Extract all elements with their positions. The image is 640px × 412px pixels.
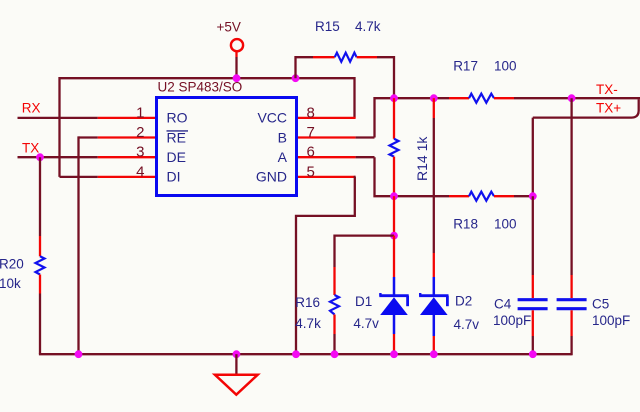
svg-text:1: 1 xyxy=(136,104,144,121)
resistor R15 xyxy=(335,53,357,62)
svg-text:U2 SP483/SO: U2 SP483/SO xyxy=(158,80,243,95)
svg-text:3: 3 xyxy=(136,144,144,161)
svg-text:R14 1k: R14 1k xyxy=(414,136,430,181)
node junction +5V stem xyxy=(233,74,241,82)
svg-text:100pF: 100pF xyxy=(493,313,531,328)
node junction bus RE xyxy=(75,350,83,358)
wire DI from +5V xyxy=(60,176,98,178)
svg-text:B: B xyxy=(278,129,287,145)
wire TX net xyxy=(18,156,98,158)
svg-text:R16: R16 xyxy=(295,295,320,310)
svg-text:8: 8 xyxy=(307,104,315,121)
svg-text:100: 100 xyxy=(494,58,517,73)
svg-text:R17: R17 xyxy=(453,58,478,73)
svg-text:VCC: VCC xyxy=(257,110,287,126)
node junction R15 left xyxy=(292,74,300,82)
svg-text:4.7k: 4.7k xyxy=(355,19,381,34)
svg-text:5: 5 xyxy=(307,163,315,180)
wire R16 bottom xyxy=(333,315,335,335)
svg-text:4: 4 xyxy=(136,163,144,180)
node junction TX-/C5 xyxy=(568,94,576,102)
svg-text:TX: TX xyxy=(22,140,39,155)
IC U2 pin 3 stub xyxy=(98,156,157,158)
capacitor C5 xyxy=(570,98,572,275)
svg-text:A: A xyxy=(278,149,288,165)
svg-text:GND: GND xyxy=(256,169,287,185)
node junction R16 bus xyxy=(331,350,339,358)
node junction TX / R20 xyxy=(36,153,44,161)
resistor R18 xyxy=(449,195,469,197)
svg-text:RX: RX xyxy=(22,101,41,116)
IC U2 pin 6 stub xyxy=(297,156,356,158)
resistor R16 xyxy=(330,295,339,315)
ground symbol xyxy=(235,354,237,374)
wire RX net xyxy=(18,117,98,119)
wire R15 right riser xyxy=(357,56,377,58)
wire R20 bottom xyxy=(39,275,41,294)
wire ground bus xyxy=(39,353,572,355)
wire R16 branch xyxy=(335,236,395,267)
svg-text:TX+: TX+ xyxy=(596,101,621,116)
svg-text:10k: 10k xyxy=(0,276,21,291)
wire A rail xyxy=(356,156,375,158)
wire +5V rail horizontal xyxy=(60,78,355,177)
wire R20 top xyxy=(39,157,41,236)
op IC U2 SP483/SO body xyxy=(157,98,297,196)
wire RE to ground xyxy=(79,136,98,138)
svg-text:4.7v: 4.7v xyxy=(353,316,379,331)
resistor R20 xyxy=(36,256,45,274)
diode D1 zener xyxy=(393,236,395,277)
svg-text:7: 7 xyxy=(307,124,315,141)
svg-text:6: 6 xyxy=(307,144,315,161)
IC U2 pin 5 stub xyxy=(297,176,356,178)
IC U2 pin 8 stub xyxy=(297,117,356,119)
svg-text:RE: RE xyxy=(167,129,186,145)
svg-text:4.7v: 4.7v xyxy=(454,317,480,332)
svg-text:C4: C4 xyxy=(494,297,512,312)
node junction bus ground stem xyxy=(233,350,241,358)
IC U2 pin 2 stub xyxy=(98,136,157,138)
node junction C4 bus xyxy=(529,350,537,358)
resistor R14 vertical xyxy=(393,98,395,139)
svg-text:4.7k: 4.7k xyxy=(295,316,321,331)
svg-text:D1: D1 xyxy=(355,294,372,309)
wire TX+ net xyxy=(632,99,639,117)
IC U2 pin 1 stub xyxy=(98,117,157,119)
node junction A/R14 bottom xyxy=(390,192,398,200)
node junction D2 top xyxy=(430,94,438,102)
node junction D1/R16 xyxy=(390,232,398,240)
svg-text:RO: RO xyxy=(167,110,188,126)
wire +5V stem xyxy=(235,57,237,78)
wire TX- net xyxy=(514,97,640,99)
svg-text:D2: D2 xyxy=(455,294,472,309)
IC U2 pin 7 stub xyxy=(297,136,356,138)
node junction D2 bus xyxy=(430,350,438,358)
resistor R17 xyxy=(449,97,469,99)
svg-text:R18: R18 xyxy=(453,217,478,232)
wire R15 left riser xyxy=(296,57,314,78)
wire B rail xyxy=(375,98,450,137)
node junction D1 bus xyxy=(390,350,398,358)
diode D2 zener xyxy=(433,98,435,118)
svg-text:100: 100 xyxy=(494,217,517,232)
svg-text:DI: DI xyxy=(167,169,181,185)
wire GND pin path xyxy=(296,177,356,354)
svg-text:DE: DE xyxy=(167,149,186,165)
svg-text:R20: R20 xyxy=(0,256,24,271)
node junction B/R14 top xyxy=(390,94,398,102)
svg-text:C5: C5 xyxy=(592,297,609,312)
svg-text:TX-: TX- xyxy=(596,82,618,97)
node junction R18/TX+/C4 xyxy=(529,192,537,200)
wire D1 node riser xyxy=(393,196,395,235)
svg-text:R15: R15 xyxy=(315,19,340,34)
IC U2 pin 4 stub xyxy=(98,176,157,178)
svg-text:+5V: +5V xyxy=(217,19,241,34)
power +5V symbol xyxy=(231,39,243,51)
capacitor C4 xyxy=(532,196,534,275)
svg-text:100pF: 100pF xyxy=(592,313,630,328)
node junction GND bus xyxy=(292,350,300,358)
svg-text:2: 2 xyxy=(136,124,144,141)
